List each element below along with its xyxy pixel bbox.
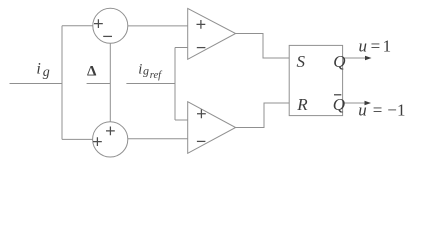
svg-text:Q: Q: [333, 95, 345, 114]
svg-text:g: g: [43, 65, 50, 80]
svg-text:R: R: [296, 95, 308, 114]
svg-text:=: =: [371, 37, 381, 56]
svg-text:g: g: [143, 64, 149, 78]
svg-text:1: 1: [397, 101, 406, 120]
svg-text:S: S: [297, 52, 306, 71]
svg-text:1: 1: [383, 37, 392, 56]
svg-text:=: =: [373, 101, 383, 120]
svg-text:i: i: [36, 61, 40, 78]
svg-text:Q: Q: [333, 52, 345, 71]
svg-text:i: i: [138, 61, 142, 77]
svg-text:u: u: [358, 101, 367, 120]
svg-text:u: u: [359, 37, 368, 56]
svg-text:−: −: [387, 101, 397, 120]
svg-text:Δ: Δ: [87, 64, 97, 80]
